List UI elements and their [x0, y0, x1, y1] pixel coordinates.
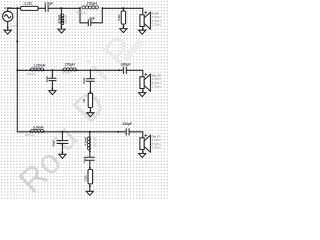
svg-text:(rms): (rms) — [10, 23, 16, 27]
inductor L7 (RLC, vertical) — [87, 137, 90, 150]
capacitor C8 (RLC) — [85, 157, 94, 160]
wire R3 to ground — [89, 108, 91, 113]
source V1 — [3, 11, 13, 21]
capacitor C4 (series mid) — [123, 67, 126, 74]
svg-text:270µH: 270µH — [87, 2, 98, 6]
resistor R3 (shunt) — [88, 93, 92, 107]
wire C8 to R4 — [89, 161, 91, 170]
ground (SPK2) — [139, 93, 146, 97]
node R2 top — [122, 7, 124, 9]
ground (R2) — [120, 29, 127, 33]
node L7 bottom lead — [89, 151, 91, 153]
node L4 left lead — [30, 131, 32, 133]
wire R1 to C1 — [38, 7, 45, 9]
node C5 ground — [62, 151, 64, 153]
node source ground — [7, 26, 9, 28]
wire C5 to ground — [61, 144, 63, 154]
wire L4 through and right to C7 — [31, 131, 126, 133]
node block right lead — [101, 7, 103, 9]
node C2 ground — [52, 88, 54, 90]
circuit wiring and components — [3, 5, 151, 195]
svg-text:360(mΩ): 360(mΩ) — [25, 133, 35, 137]
node block left lead — [79, 7, 81, 9]
svg-text:(86mΩ): (86mΩ) — [64, 15, 68, 24]
wire C2 to ground — [51, 81, 53, 91]
svg-text:3.9mH: 3.9mH — [33, 126, 44, 130]
inductor L3 — [63, 68, 76, 71]
node C3 junction — [89, 69, 91, 71]
svg-text:30µF: 30µF — [45, 76, 49, 83]
node R4 ground — [89, 185, 91, 187]
node R4 top lead — [89, 167, 91, 169]
svg-text:1.5Ω: 1.5Ω — [84, 175, 88, 182]
ground (shunt L5) — [58, 29, 65, 33]
node bus mid mark — [16, 41, 18, 43]
wire bottom row from bus — [17, 131, 30, 133]
speaker SPK3 text — [152, 134, 162, 149]
svg-text:(300mΩ): (300mΩ) — [92, 137, 96, 147]
speaker SPK1 text — [152, 11, 162, 26]
wire R4 to ground — [89, 184, 91, 191]
ground (source) — [4, 30, 11, 34]
node C2 junction — [51, 69, 53, 71]
svg-text:2 Ohm: 2 Ohm — [152, 146, 162, 150]
wire L7 through — [89, 137, 91, 157]
wire block to node T — [102, 7, 143, 9]
node C7 left lead — [117, 131, 119, 133]
node L5 ground — [61, 26, 63, 28]
node R3 ground — [90, 110, 92, 112]
svg-text:4.3mH: 4.3mH — [84, 137, 88, 145]
ground (R3) — [87, 113, 94, 117]
node RLC junction — [89, 131, 91, 133]
resistor R1 — [21, 6, 39, 10]
capacitor C5 (shunt) — [57, 141, 68, 144]
wire source top — [8, 8, 21, 11]
ground (SPK1) — [139, 30, 146, 34]
svg-text:30µF: 30µF — [82, 77, 86, 84]
svg-text:47µF: 47µF — [83, 156, 87, 163]
speaker SPK2 text — [152, 73, 162, 88]
wire RLC stem top — [89, 132, 91, 137]
svg-text:3.9µF: 3.9µF — [44, 2, 53, 6]
svg-text:270µH: 270µH — [65, 63, 76, 67]
node SPK2 ground — [142, 90, 144, 92]
svg-text:95(mΩ): 95(mΩ) — [27, 72, 36, 76]
watermark RouDiP — [12, 27, 146, 201]
inductor L2 — [31, 68, 44, 71]
node L2 right lead — [43, 69, 45, 71]
parallel block left bar — [79, 8, 81, 23]
wire bus left vertical — [16, 8, 18, 132]
inductor L6 (in block, on line) — [82, 6, 99, 9]
wire L2 to L3 — [44, 69, 63, 71]
capacitor C7 (series bottom) — [126, 129, 129, 136]
node L3 right lead — [75, 69, 77, 71]
capacitor C3 (shunt) — [86, 79, 94, 82]
svg-text:1.20mH: 1.20mH — [33, 63, 46, 67]
node R3 top lead — [90, 91, 92, 93]
speaker SPK1 tweeter — [140, 11, 151, 29]
speaker SPK2 midrange — [140, 73, 151, 91]
svg-text:2 Ohm: 2 Ohm — [152, 85, 162, 89]
svg-text:330µF: 330µF — [121, 63, 131, 67]
wire C7 to SPK3 — [129, 132, 143, 138]
wire to tweeter — [142, 8, 144, 15]
wire source bottom — [7, 22, 9, 30]
svg-text:6.8Ω: 6.8Ω — [117, 14, 121, 21]
node C4 left lead — [118, 69, 120, 71]
parallel block right bar — [101, 8, 103, 23]
junction and lead dots — [7, 7, 144, 187]
svg-text:2,83V: 2,83V — [4, 6, 13, 10]
wire SPK2 to ground — [142, 89, 144, 93]
inductor L5 (shunt, vertical) — [61, 14, 64, 25]
capacitor C2 (shunt) — [49, 78, 56, 80]
node L2 left lead — [30, 69, 32, 71]
ground (R4) — [86, 191, 93, 195]
node bus top — [17, 7, 19, 9]
svg-text:3µF: 3µF — [89, 16, 95, 20]
wire L2 through — [31, 69, 44, 71]
node SPK1 ground — [142, 28, 144, 30]
node bus middle row — [16, 69, 18, 71]
node R2 bottom — [123, 26, 125, 28]
node SPK3 ground — [142, 151, 144, 153]
svg-text:82µF: 82µF — [51, 140, 55, 147]
node L3 left lead — [62, 69, 64, 71]
inductor L4 — [31, 129, 44, 132]
svg-text:270µH: 270µH — [57, 15, 61, 23]
wire C4 to SPK2 — [126, 70, 142, 77]
node C5 junction — [61, 131, 63, 133]
svg-text:418(mΩ): 418(mΩ) — [77, 11, 87, 15]
wire shunt L5 stem — [60, 8, 62, 29]
wire mid row from bus — [17, 69, 30, 71]
capacitor C6 (in block) — [88, 20, 91, 26]
wire SPK3 to ground — [142, 150, 144, 154]
wire C3 to R3 — [89, 81, 91, 93]
node L4 right lead — [43, 131, 45, 133]
wire shunt R2 stem — [122, 8, 124, 28]
wire C1 to block — [48, 7, 80, 9]
svg-text:2 Ohm: 2 Ohm — [152, 23, 162, 27]
resistor R2 (shunt) — [121, 11, 125, 24]
svg-text:(23mΩ): (23mΩ) — [62, 71, 71, 75]
svg-text:2.2Ω: 2.2Ω — [24, 2, 32, 6]
resistor R4 (RLC) — [88, 169, 93, 184]
node shunt L5 — [60, 7, 62, 9]
wire block bottom branch — [80, 22, 102, 24]
wire shunt C5 stem — [61, 132, 63, 141]
capacitor C1 — [45, 5, 48, 11]
ground (SPK3) — [139, 154, 146, 158]
speaker SPK3 woofer — [140, 134, 151, 152]
wire shunt C3R3 stem — [89, 70, 91, 78]
ground (C5) — [59, 154, 66, 158]
wire L3 through and to cap C4 — [63, 69, 123, 71]
wire shunt C2 stem — [51, 70, 53, 78]
wire SPK1 to ground — [142, 27, 144, 30]
ground (C2) — [49, 91, 56, 95]
svg-text:330µF: 330µF — [122, 122, 132, 126]
